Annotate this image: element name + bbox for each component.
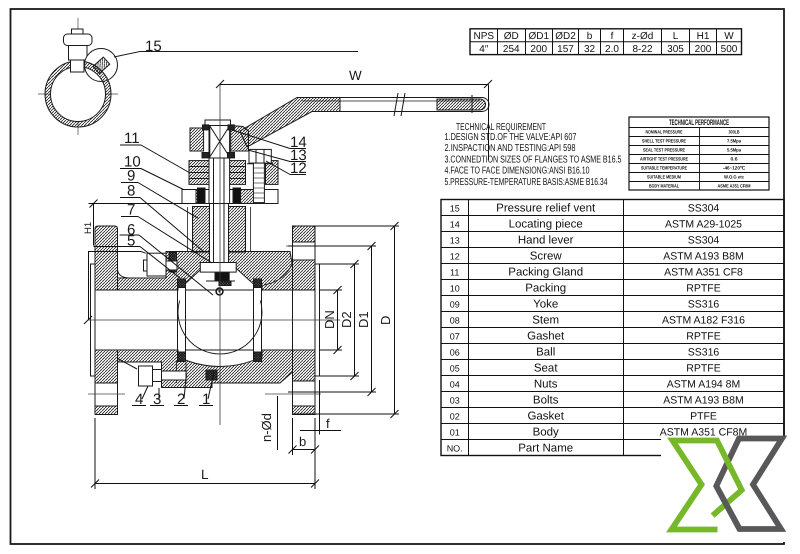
svg-text:SHELL TEST PRESSURE: SHELL TEST PRESSURE — [642, 139, 686, 144]
svg-text:f: f — [326, 416, 330, 431]
svg-text:D: D — [378, 316, 393, 325]
svg-text:Locating piece: Locating piece — [509, 218, 583, 230]
svg-text:H1: H1 — [83, 222, 94, 234]
svg-text:NO.: NO. — [447, 443, 463, 453]
svg-text:10: 10 — [450, 283, 460, 293]
svg-text:SS304: SS304 — [688, 202, 720, 214]
svg-text:Part Name: Part Name — [518, 442, 573, 454]
svg-text:L: L — [201, 467, 209, 482]
svg-text:ASTM A351 CF8: ASTM A351 CF8 — [664, 266, 743, 278]
svg-text:03: 03 — [450, 395, 460, 405]
svg-text:4: 4 — [135, 391, 143, 408]
svg-text:Gasket: Gasket — [527, 410, 564, 422]
svg-text:SUITABLE MEDIUM: SUITABLE MEDIUM — [647, 175, 681, 180]
svg-text:200: 200 — [530, 44, 547, 55]
svg-text:32: 32 — [584, 44, 596, 55]
svg-text:Packing: Packing — [525, 282, 566, 294]
svg-text:-46~120℃: -46~120℃ — [723, 166, 746, 171]
svg-text:5.5Mpa: 5.5Mpa — [727, 148, 741, 153]
svg-text:SEAL TEST PRESSURE: SEAL TEST PRESSURE — [643, 148, 685, 153]
svg-text:ASTM A193 B8M: ASTM A193 B8M — [663, 250, 744, 262]
svg-text:05: 05 — [450, 363, 460, 373]
svg-text:8-22: 8-22 — [632, 44, 652, 55]
svg-text:RPTFE: RPTFE — [686, 362, 720, 374]
svg-text:200: 200 — [695, 44, 712, 55]
svg-text:SUITABLE TEMPERATURE: SUITABLE TEMPERATURE — [641, 166, 687, 171]
svg-text:b: b — [299, 434, 306, 449]
svg-text:H1: H1 — [697, 31, 710, 42]
svg-text:13: 13 — [450, 235, 460, 245]
svg-text:PTFE: PTFE — [690, 410, 717, 422]
svg-text:n-Ød: n-Ød — [259, 413, 274, 442]
svg-text:01: 01 — [450, 427, 460, 437]
svg-text:W: W — [349, 68, 362, 83]
svg-text:500: 500 — [721, 44, 738, 55]
svg-text:BODY MATERIAL: BODY MATERIAL — [649, 184, 679, 189]
svg-text:z-Ød: z-Ød — [632, 31, 654, 42]
svg-text:AIRTIGHT TEST PRESSURE: AIRTIGHT TEST PRESSURE — [640, 157, 688, 162]
svg-text:Ball: Ball — [536, 346, 555, 358]
svg-text:W: W — [724, 31, 734, 42]
svg-text:ØD: ØD — [504, 31, 519, 42]
svg-text:SS316: SS316 — [688, 298, 720, 310]
svg-text:3.CONNEDTION SIZES OF FLANGES: 3.CONNEDTION SIZES OF FLANGES TO ASME B1… — [445, 154, 622, 165]
svg-text:SS304: SS304 — [688, 234, 720, 246]
svg-text:4.FACE TO FACE DIMENSIONG:ANSI: 4.FACE TO FACE DIMENSIONG:ANSI B16.10 — [445, 166, 590, 177]
svg-text:D2: D2 — [339, 311, 354, 328]
svg-text:04: 04 — [450, 379, 460, 389]
svg-text:Gashet: Gashet — [527, 330, 565, 342]
svg-text:15: 15 — [145, 38, 162, 55]
svg-text:7.5Mpa: 7.5Mpa — [727, 139, 741, 144]
svg-text:Stem: Stem — [532, 314, 559, 326]
svg-text:15: 15 — [450, 203, 460, 213]
svg-text:254: 254 — [503, 44, 520, 55]
svg-text:305: 305 — [667, 44, 684, 55]
svg-text:06: 06 — [450, 347, 460, 357]
svg-text:11: 11 — [124, 130, 140, 147]
svg-text:08: 08 — [450, 315, 460, 325]
svg-text:W.O.G etc: W.O.G etc — [724, 175, 744, 180]
svg-text:ØD2: ØD2 — [555, 31, 576, 42]
svg-text:2: 2 — [177, 391, 185, 408]
svg-text:14: 14 — [450, 219, 460, 229]
svg-text:ASTM A182 F316: ASTM A182 F316 — [662, 314, 745, 326]
svg-text:1: 1 — [202, 391, 210, 408]
svg-text:Seat: Seat — [534, 362, 558, 374]
svg-text:Hand lever: Hand lever — [518, 234, 574, 246]
svg-text:Nuts: Nuts — [534, 378, 558, 390]
svg-text:2.0: 2.0 — [605, 44, 619, 55]
svg-text:RPTFE: RPTFE — [686, 330, 720, 342]
svg-text:TECHNICAL PERFORMANCE: TECHNICAL PERFORMANCE — [669, 118, 729, 127]
svg-text:Bolts: Bolts — [533, 394, 559, 406]
svg-text:157: 157 — [557, 44, 574, 55]
svg-text:ASTM A194 8M: ASTM A194 8M — [667, 378, 741, 390]
svg-text:ØD1: ØD1 — [528, 31, 549, 42]
svg-text:ASTM A29-1025: ASTM A29-1025 — [665, 218, 742, 230]
svg-text:Pressure relief vent: Pressure relief vent — [496, 202, 596, 214]
svg-text:300LB: 300LB — [729, 130, 740, 135]
svg-text:1.DESIGN STD.OF THE VALVE:API: 1.DESIGN STD.OF THE VALVE:API 607 — [445, 132, 577, 143]
svg-text:ASME A351 CF8M: ASME A351 CF8M — [718, 184, 751, 189]
svg-text:SS316: SS316 — [688, 346, 720, 358]
svg-text:5.PRESSURE-TEMPERATURE BASIS:A: 5.PRESSURE-TEMPERATURE BASIS:ASME B16.34 — [445, 177, 608, 188]
svg-text:RPTFE: RPTFE — [686, 282, 720, 294]
svg-text:4″: 4″ — [479, 44, 489, 55]
svg-text:b: b — [587, 31, 593, 42]
svg-text:09: 09 — [450, 299, 460, 309]
svg-text:Screw: Screw — [530, 250, 563, 262]
svg-text:Body: Body — [533, 426, 559, 438]
svg-text:8: 8 — [127, 183, 135, 200]
svg-text:12: 12 — [290, 160, 307, 177]
svg-text:f: f — [611, 31, 614, 42]
svg-text:12: 12 — [450, 251, 460, 261]
svg-text:02: 02 — [450, 411, 460, 421]
svg-text:Yoke: Yoke — [533, 298, 558, 310]
svg-text:DN: DN — [322, 310, 337, 329]
svg-text:L: L — [673, 31, 679, 42]
svg-text:NOMINAL PRESSURE: NOMINAL PRESSURE — [646, 130, 683, 135]
svg-text:NPS: NPS — [473, 31, 494, 42]
svg-text:07: 07 — [450, 331, 460, 341]
svg-text:Packing Gland: Packing Gland — [508, 266, 583, 278]
svg-text:0.6: 0.6 — [731, 157, 738, 162]
svg-text:7: 7 — [127, 202, 135, 219]
svg-text:ASTM A193 B8M: ASTM A193 B8M — [663, 394, 744, 406]
svg-text:2.INSPACTION AND TESTING:API 5: 2.INSPACTION AND TESTING:API 598 — [445, 143, 576, 154]
svg-text:D1: D1 — [356, 311, 371, 328]
svg-text:5: 5 — [127, 233, 135, 250]
svg-text:11: 11 — [450, 267, 459, 277]
svg-text:3: 3 — [153, 391, 161, 408]
